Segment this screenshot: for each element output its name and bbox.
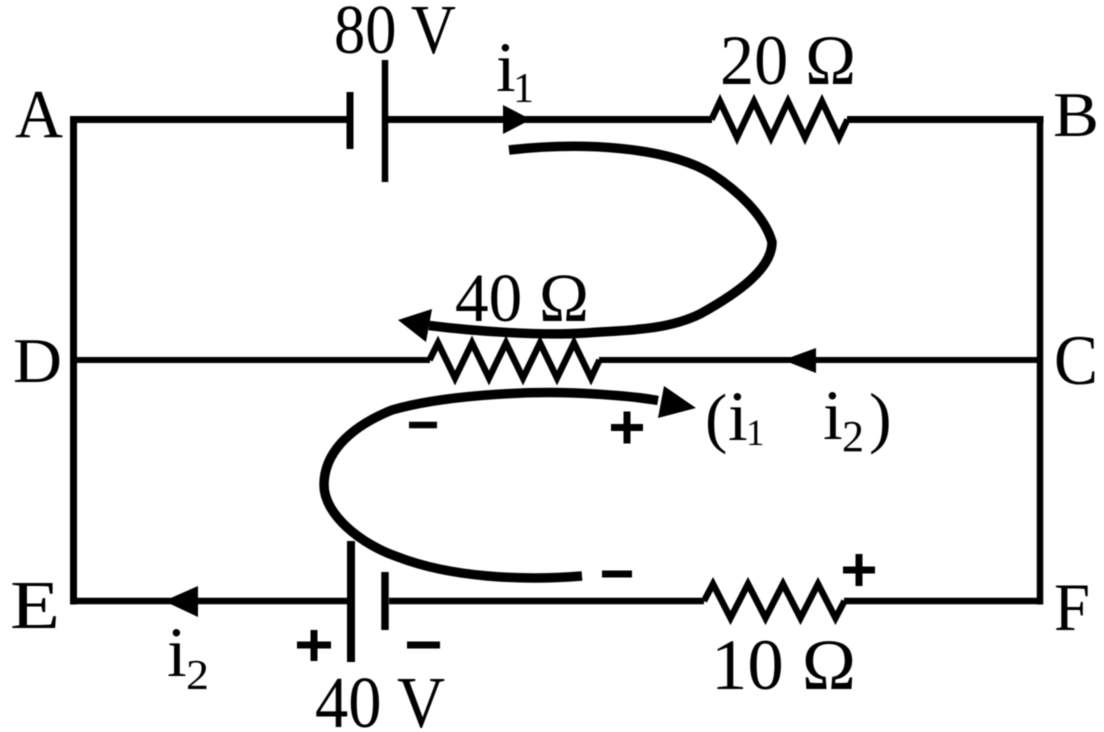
wire E to 40V battery (bottom rail left) xyxy=(70,598,349,605)
resistor R 10 ohm zigzag xyxy=(704,584,845,618)
svg-text:): ) xyxy=(869,379,892,455)
svg-text:B: B xyxy=(1053,80,1099,150)
svg-text:40 V: 40 V xyxy=(315,662,445,732)
svg-text:i: i xyxy=(167,614,187,692)
battery 40 V plate short (negative, right) xyxy=(381,572,389,630)
wire 20 ohm to B (top rail right) xyxy=(847,116,1044,123)
current label i1 xyxy=(496,29,534,112)
resistor R 40 ohm zigzag xyxy=(430,343,600,378)
svg-text:2: 2 xyxy=(186,653,209,699)
svg-text:1: 1 xyxy=(746,413,765,454)
svg-text:10 Ω: 10 Ω xyxy=(711,625,856,705)
polarity plus (40 ohm right) xyxy=(611,412,643,444)
polarity plus (10 ohm right) xyxy=(843,554,875,586)
polarity plus (40V battery left) xyxy=(297,630,331,661)
wire 10 ohm to F (bottom rail right) xyxy=(844,598,1043,605)
svg-text:2: 2 xyxy=(842,412,864,461)
current arrow C toward D (pointing left on middle rail) xyxy=(783,348,816,373)
battery 80 V plate long (positive, right) xyxy=(382,60,389,182)
svg-text:C: C xyxy=(1054,322,1098,400)
loop arrow 1 (mesh ABCD, clockwise) xyxy=(398,146,772,342)
battery 80 V plate short (negative, left) xyxy=(347,92,354,149)
svg-text:E: E xyxy=(10,567,60,643)
wire battery to 20 ohm resistor xyxy=(388,116,712,123)
svg-text:A: A xyxy=(15,76,63,152)
wire A to 80V battery (top rail left) xyxy=(70,116,349,123)
polarity minus (40V battery right) xyxy=(407,642,440,649)
svg-text:F: F xyxy=(1054,569,1090,645)
resistor R 20 ohm zigzag xyxy=(712,102,848,138)
polarity minus (40 ohm left) xyxy=(409,422,437,429)
wire 40 ohm to C (middle rail right) xyxy=(599,357,1043,363)
wire D to 40 ohm resistor (middle rail left) xyxy=(70,357,430,363)
polarity minus (10 ohm left) xyxy=(602,571,632,578)
svg-text:(: ( xyxy=(705,381,727,455)
current arrow i2 (pointing left on bottom rail) xyxy=(164,586,198,617)
wire battery to 10 ohm resistor xyxy=(389,598,704,605)
svg-text:20 Ω: 20 Ω xyxy=(720,22,856,100)
current arrow i1 (pointing right on top rail) xyxy=(503,105,531,134)
battery 40 V plate long (positive, left) xyxy=(347,541,355,662)
wire A-D-E (left vertical) xyxy=(70,116,77,605)
current label i2 xyxy=(167,614,209,699)
svg-text:i: i xyxy=(823,377,843,455)
svg-text:D: D xyxy=(13,326,62,396)
svg-text:80 V: 80 V xyxy=(334,0,456,69)
svg-text:1: 1 xyxy=(513,66,534,112)
loop arrow 2 (mesh DCFE, clockwise) xyxy=(324,386,696,578)
svg-text:40 Ω: 40 Ω xyxy=(455,260,589,336)
label (i1 - i2) loop current difference xyxy=(705,377,892,461)
svg-text:i: i xyxy=(728,378,748,456)
wire B-C-F (right vertical) xyxy=(1037,116,1044,605)
